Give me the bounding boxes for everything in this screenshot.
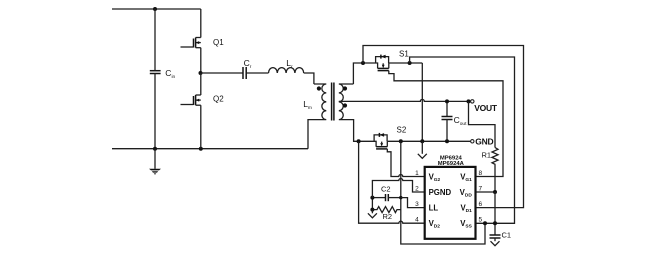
wire secondary top lead up to S1: [353, 63, 363, 84]
svg-text:Q2: Q2: [213, 95, 224, 104]
wire center tap to VOUT with hop over S1 source line: [339, 99, 471, 101]
wire VDD down to C1: [494, 192, 496, 235]
pin 5 VSS: [460, 217, 482, 230]
node Cout bottom junction: [445, 139, 449, 143]
resistor R2: [372, 198, 400, 221]
ground arrow below C1: [491, 241, 500, 246]
wire Cin branch lower: [154, 74, 156, 149]
svg-text:VOUT: VOUT: [474, 103, 498, 113]
wire S1 source to VSS pin 5 outer loop: [410, 57, 515, 223]
wire bottom input rail: [112, 148, 308, 150]
pin 1 VG2: [415, 170, 440, 183]
wire midpoint to Cr: [201, 72, 243, 74]
inductor Lr: [269, 58, 304, 73]
node S2 drain junction: [357, 139, 361, 143]
pin 6 VD1: [460, 201, 482, 214]
node PGND tap junction: [399, 139, 403, 143]
transistor S2: [359, 126, 407, 149]
svg-text:S1: S1: [399, 50, 409, 59]
svg-text:Q1: Q1: [213, 38, 224, 47]
svg-text:GND: GND: [475, 136, 493, 146]
wire PGND vertical to bottom: [401, 141, 485, 244]
svg-text:C2: C2: [381, 185, 391, 194]
wire S2 gate to VG2 pin 1 with hop: [387, 149, 424, 177]
wire S1 source lead: [389, 62, 423, 64]
capacitor Cout: [442, 101, 468, 141]
wire S1 gate to VG1 pin 8: [389, 71, 503, 177]
op-amp U1 MP6924 IC body: [425, 155, 476, 238]
wire LL pin 3 jog: [401, 198, 425, 208]
svg-text:7: 7: [479, 186, 483, 193]
ground arrow below C2 R2: [368, 210, 377, 218]
resistor R1: [469, 101, 499, 192]
svg-text:2: 2: [415, 186, 419, 193]
node VOUT terminal: [471, 100, 498, 113]
ground earth symbol below Cin: [149, 149, 161, 175]
svg-text:R1: R1: [482, 151, 492, 160]
wire top input rail: [112, 8, 201, 10]
wire S2 drain to VD2 pin 4 with hop: [359, 141, 425, 223]
node top rail junction: [153, 7, 157, 11]
node bottom rail junction at Q2 source: [199, 147, 203, 151]
svg-text:4: 4: [415, 217, 419, 224]
svg-text:S2: S2: [397, 126, 407, 135]
transformer secondary winding: [339, 84, 359, 141]
pin 4 VD2: [415, 217, 440, 230]
transistor S1: [363, 50, 409, 71]
node R2 left junction: [370, 208, 374, 212]
transistor Q1: [181, 9, 225, 73]
wire VDD pin 7: [476, 191, 495, 193]
wire Lr to transformer: [304, 73, 314, 84]
wire S1 source down to GND rail: [421, 63, 423, 141]
node GND rail S1 junction: [420, 139, 424, 143]
node GND terminal: [471, 136, 494, 146]
svg-text:PGND: PGND: [429, 188, 452, 197]
svg-text:1: 1: [415, 170, 419, 177]
wire Cr to Lr: [246, 72, 268, 74]
pin 8 VG1: [460, 170, 482, 183]
transformer core: [332, 83, 334, 121]
wire Cin branch upper: [154, 9, 156, 71]
svg-text:MP6924A: MP6924A: [438, 161, 465, 167]
wire GND rail S2 source to GND terminal: [387, 140, 471, 142]
transistor Q2: [181, 73, 225, 149]
capacitor C1: [490, 231, 512, 242]
node VSS bottom-wire junction: [483, 221, 487, 225]
ground arrow below GND rail: [418, 141, 427, 158]
pin 2 PGND: [415, 186, 451, 198]
wire PGND left node to pin 2 with hop: [372, 179, 424, 198]
svg-text:LL: LL: [429, 204, 439, 213]
wire S1 drain to VD1 pin 6 outer loop: [363, 46, 524, 208]
node C2 left junction: [370, 196, 374, 200]
node secondary polarity dot lower: [343, 103, 347, 107]
svg-text:6: 6: [479, 201, 483, 208]
svg-text:C1: C1: [502, 231, 512, 240]
node Cout top junction: [445, 99, 449, 103]
node S1 source junction: [408, 61, 412, 65]
capacitor Cin: [150, 68, 176, 80]
capacitor Cr: [243, 58, 252, 79]
node S1 drain junction: [361, 61, 365, 65]
svg-text:8: 8: [479, 170, 483, 177]
node secondary polarity dot upper: [343, 86, 347, 90]
pin 7 VDD: [460, 186, 483, 199]
svg-text:5: 5: [479, 217, 483, 224]
svg-text:3: 3: [415, 201, 419, 208]
node VDD junction: [493, 190, 497, 194]
node VOUT branch junction: [467, 99, 471, 103]
svg-text:R2: R2: [383, 212, 393, 221]
node VSS C1 junction: [493, 221, 497, 225]
transformer primary winding Lm: [303, 84, 326, 149]
node C2 right junction: [399, 196, 402, 199]
capacitor C2: [372, 185, 400, 202]
pin 3 LL: [415, 201, 438, 213]
node primary polarity dot: [317, 86, 321, 90]
node bottom rail junction at Cin: [153, 147, 157, 151]
node half-bridge midpoint: [199, 71, 203, 75]
